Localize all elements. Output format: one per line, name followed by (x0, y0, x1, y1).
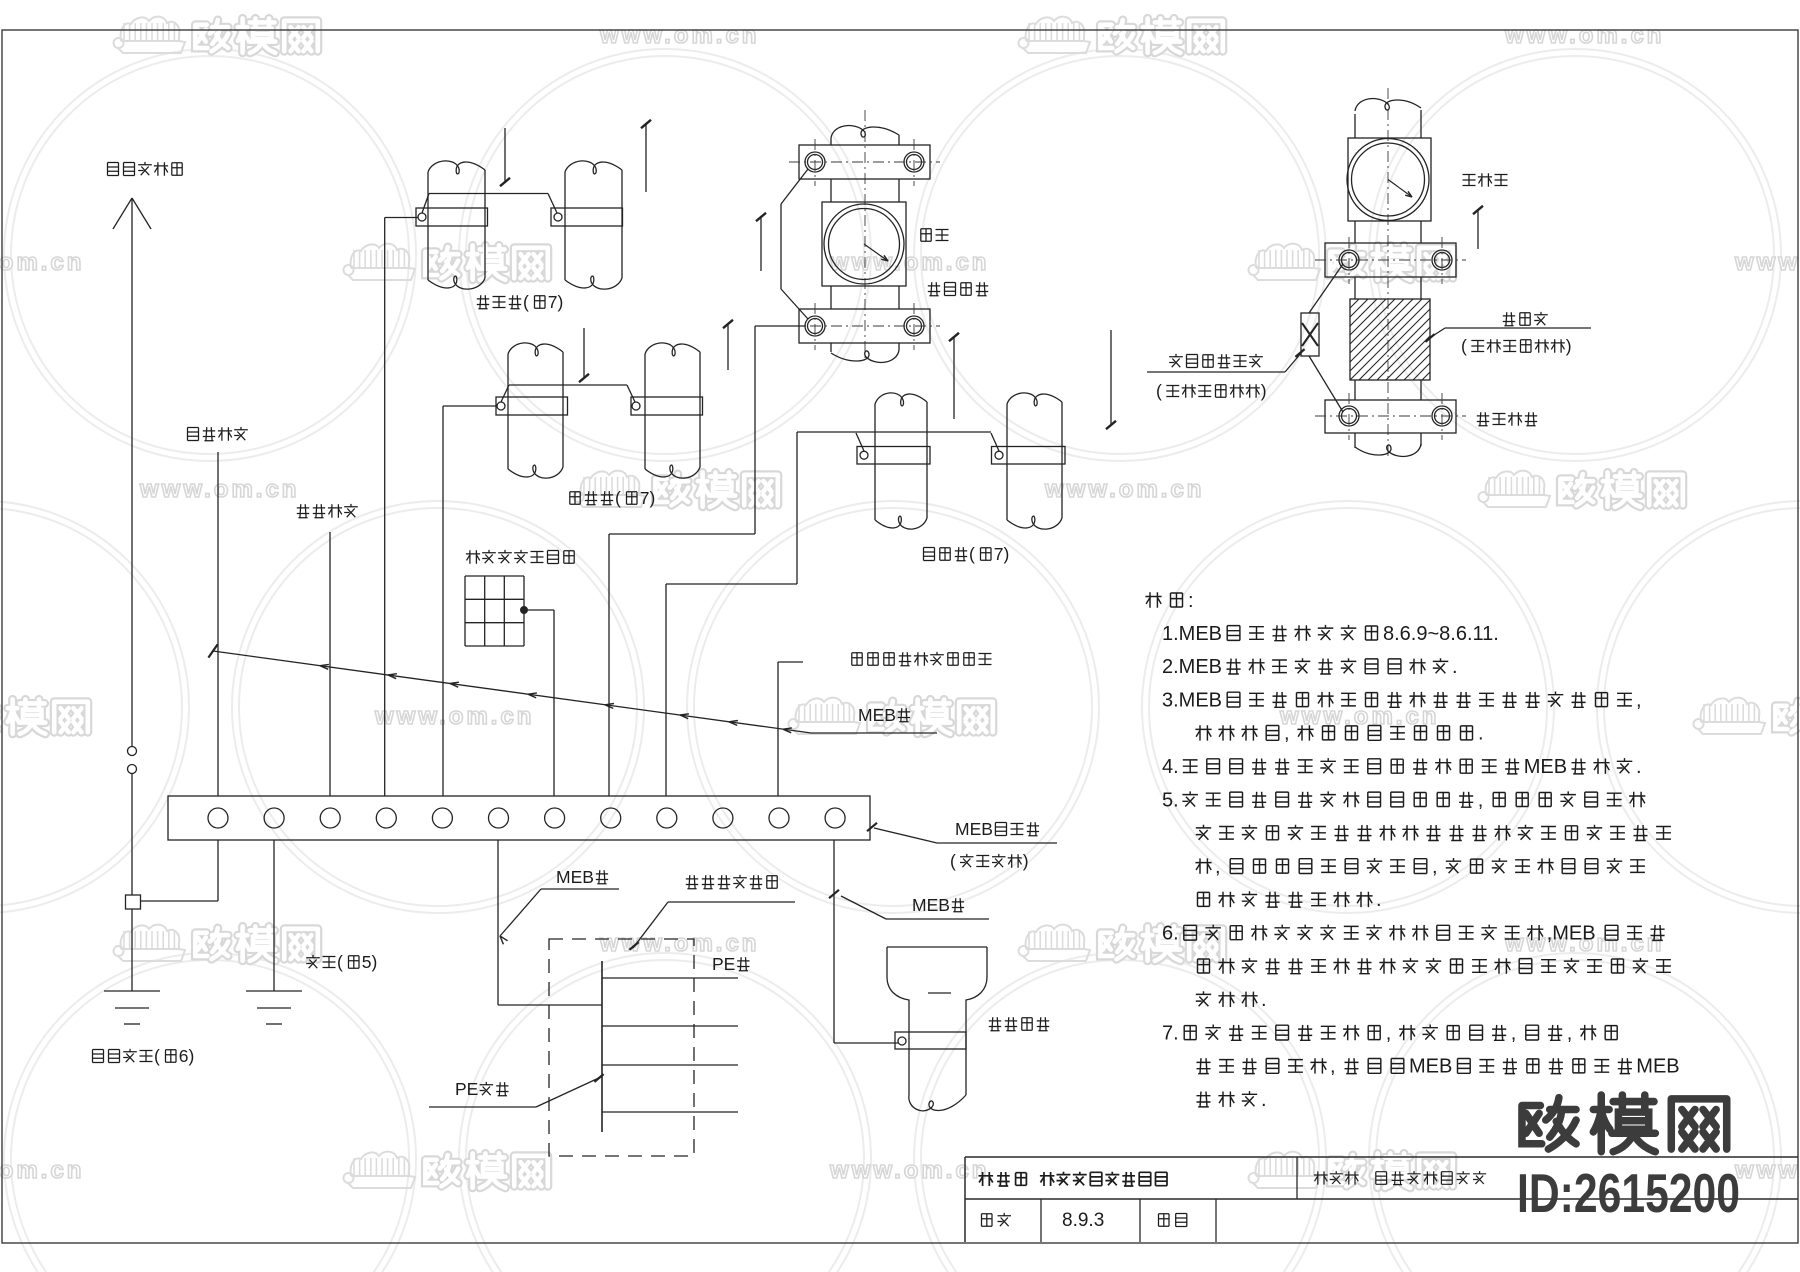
main drain pipe (887, 947, 987, 1111)
label: building metal structure (466, 550, 574, 564)
svg-text:6): 6) (179, 1046, 195, 1066)
label: main drain pipe (989, 1017, 1049, 1031)
svg-text:8.6.9~8.6.11.: 8.6.9~8.6.11. (1383, 623, 1499, 645)
flow arrow up (AC) (723, 320, 733, 370)
svg-text:,: , (1567, 1022, 1573, 1044)
svg-text:www.om.cn: www.om.cn (1504, 22, 1664, 49)
wire: bar to drain pipe (834, 840, 898, 1043)
notes block (1145, 590, 1679, 1111)
flow arrows near water meter (756, 213, 766, 271)
PE branch lines (602, 978, 738, 1112)
svg-text:(: ( (154, 1046, 160, 1066)
label + wire: telecom equipment (297, 504, 358, 796)
svg-text:,: , (1432, 856, 1438, 878)
ground: protective earth (note5) (246, 840, 302, 1024)
label + wire: antenna equipment (188, 427, 248, 796)
label: lightning air terminal (108, 162, 183, 176)
svg-text:8.9.3: 8.9.3 (1062, 1210, 1104, 1231)
title texts (979, 1171, 1487, 1231)
svg-text:www.om.cn: www.om.cn (374, 703, 534, 730)
svg-text:(: ( (337, 952, 343, 972)
label: lightning earth (note6) (93, 1046, 195, 1066)
svg-text:www.om.cn: www.om.cn (1734, 1157, 1800, 1184)
label+leader: spark gap (1147, 349, 1305, 401)
svg-text:,: , (1215, 856, 1221, 878)
svg-text:,MEB: ,MEB (1547, 923, 1596, 945)
gas meter centerline (1387, 88, 1389, 458)
gas meter lower clamp (1315, 393, 1466, 440)
label: heating pipe (note7) (477, 292, 564, 312)
svg-text:MEB: MEB (1409, 1056, 1452, 1078)
svg-text:): ) (1566, 336, 1572, 356)
svg-text:.: . (1376, 889, 1382, 911)
svg-text:ID:2615200: ID:2615200 (1517, 1162, 1740, 1224)
label: other parts to connect (778, 652, 992, 796)
label+leader: MEB terminal board (867, 819, 1057, 871)
svg-text:(: ( (523, 292, 529, 312)
svg-text:(: ( (969, 544, 975, 564)
svg-text:(: ( (615, 488, 621, 508)
svg-text:6.: 6. (1162, 923, 1179, 945)
svg-text:.: . (1452, 656, 1458, 678)
wire: AC pipes bond (443, 385, 635, 796)
svg-text::: : (1188, 590, 1194, 612)
building metal structure grid (465, 576, 524, 646)
wire: water meter to bar (609, 326, 805, 796)
label: AC pipe (note7) (570, 488, 656, 508)
title block (965, 1157, 1798, 1242)
svg-text:www.om.cn: www.om.cn (139, 476, 299, 503)
svg-text:(: ( (1461, 336, 1467, 356)
svg-text:www.om.cn: www.om.cn (0, 1157, 84, 1184)
svg-text:MEB: MEB (556, 867, 594, 887)
svg-text:5): 5) (362, 952, 378, 972)
svg-text:MEB: MEB (1524, 756, 1567, 778)
lightning down conductor with open arrow (113, 198, 151, 747)
flow arrow up (hot water) (949, 333, 959, 419)
label: earth (note5) (306, 952, 377, 972)
svg-text:PE: PE (455, 1079, 478, 1099)
label+leader: MEB wire (drain) (829, 890, 989, 919)
svg-text:,: , (1478, 789, 1484, 811)
test joints (two circles) (128, 747, 137, 896)
long diagonal MEB wire (208, 644, 811, 733)
hot water pipes pair (857, 393, 1065, 529)
svg-text:): ) (1261, 381, 1267, 401)
label+leader: main incoming distribution panel (629, 875, 795, 950)
insulating section (hatched) (1269, 299, 1512, 380)
svg-text:PE: PE (712, 954, 735, 974)
node dot + wire to bar (521, 607, 555, 797)
water meter upper clamp (789, 139, 940, 186)
MEB terminal bar (168, 796, 870, 840)
svg-text:,: , (1330, 1056, 1336, 1078)
water meter lower clamp (789, 303, 940, 350)
svg-text:,: , (1284, 723, 1290, 745)
flow arrow down (hot water) (1106, 330, 1116, 429)
label: water meter (921, 229, 949, 241)
label+leader: PE busbar (429, 1074, 604, 1107)
svg-text:www.om.cn: www.om.cn (599, 930, 759, 957)
svg-text:,: , (1511, 1022, 1517, 1044)
svg-text:(: ( (950, 851, 956, 871)
flow arrow up (gas) (1473, 206, 1483, 249)
water meter bypass bond (781, 169, 808, 319)
svg-text:www.om.cn: www.om.cn (829, 249, 989, 276)
label: main water supply pipe (928, 282, 988, 296)
svg-text:.: . (1261, 989, 1267, 1011)
svg-text:.: . (1636, 756, 1642, 778)
svg-text:): ) (1023, 851, 1029, 871)
label+leader: insulating section (1425, 312, 1591, 356)
ground: lightning earth (104, 991, 160, 1024)
svg-text:3.MEB: 3.MEB (1162, 689, 1222, 711)
label: main gas pipe (1477, 412, 1537, 426)
svg-text:7): 7) (640, 488, 656, 508)
svg-text:MEB: MEB (858, 705, 896, 725)
label: hot water pipe (note7) (924, 544, 1010, 564)
svg-text:4.: 4. (1162, 756, 1179, 778)
PE busbar (601, 961, 603, 1132)
flow arrow up (heating) (641, 120, 651, 192)
svg-text:.: . (1478, 723, 1484, 745)
svg-text:MEB: MEB (1636, 1056, 1679, 1078)
svg-text:7.: 7. (1162, 1022, 1179, 1044)
heating pipes pair (416, 161, 623, 289)
svg-text:7): 7) (548, 292, 564, 312)
gas meter upper clamp (1315, 237, 1466, 284)
wire: heating pipes bond (385, 194, 557, 797)
svg-text:www.om.cn: www.om.cn (1044, 476, 1204, 503)
tap wire to MEB bar (141, 840, 219, 901)
svg-text:2.MEB: 2.MEB (1162, 656, 1222, 678)
gas meter body + dial (1347, 138, 1431, 221)
label: PE line (712, 954, 750, 974)
gas meter pipes (1355, 99, 1421, 457)
svg-text:,: , (1386, 1022, 1392, 1044)
svg-text:MEB: MEB (912, 895, 950, 915)
flow arrow down (heating) (500, 128, 510, 186)
svg-text:.: . (1261, 1089, 1267, 1111)
wire: hot water pipes bond (666, 432, 999, 796)
svg-text:5.: 5. (1162, 789, 1179, 811)
label: MEB wire (diagonal) (811, 705, 937, 733)
svg-text:(: ( (1156, 381, 1162, 401)
svg-text:1.MEB: 1.MEB (1162, 623, 1222, 645)
dark watermark brand (1517, 1095, 1740, 1224)
svg-text:MEB: MEB (955, 819, 993, 839)
spark discharge gap symbol (1301, 264, 1343, 412)
label: gas meter (1463, 173, 1508, 187)
label+leader: MEB wire (panel) (500, 867, 619, 944)
svg-text:www.om.cn: www.om.cn (599, 22, 759, 49)
svg-text:7): 7) (994, 544, 1010, 564)
distribution panel (dashed) (549, 939, 694, 1156)
svg-text:www.om.cn: www.om.cn (0, 249, 84, 276)
water meter pipes (831, 126, 899, 363)
svg-text:www.om.cn: www.om.cn (1734, 249, 1800, 276)
disconnect link square (126, 895, 141, 991)
wire: bar to panel PE bus (498, 840, 602, 1005)
water meter centerline (864, 110, 866, 358)
water meter body + dial (822, 202, 906, 286)
AC pipes pair (496, 343, 703, 478)
flow arrow down (AC) (579, 328, 589, 382)
svg-text:,: , (1636, 689, 1642, 711)
